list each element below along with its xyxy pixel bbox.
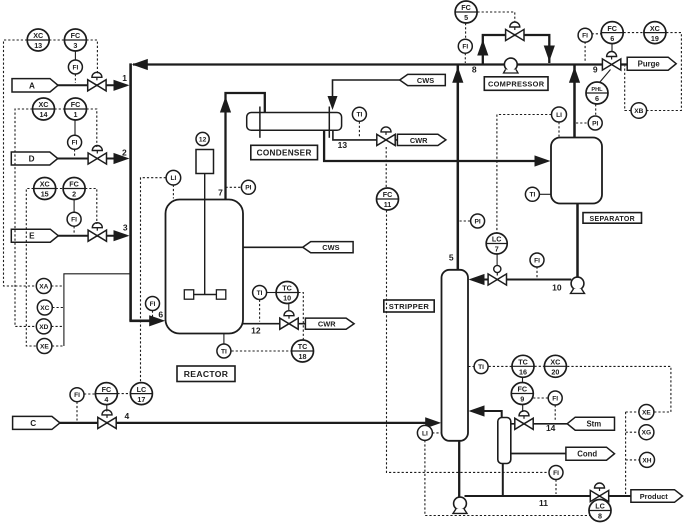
- arrow stripper overhead up: [452, 67, 463, 83]
- wire stripper overhead stream 5: [457, 65, 460, 270]
- svg-text:8: 8: [472, 65, 477, 75]
- valve 9 stripper steam: [515, 411, 533, 430]
- analyzer XC: [37, 300, 52, 315]
- svg-text:FI: FI: [553, 470, 559, 477]
- svg-text:1: 1: [74, 110, 78, 119]
- svg-text:D: D: [29, 155, 35, 164]
- indicator PI stripper: [471, 214, 485, 228]
- indicator PI separator: [588, 116, 602, 130]
- svg-text:17: 17: [137, 395, 145, 404]
- controller FC-4: [95, 383, 117, 405]
- signal FC5 to valve 5: [477, 12, 514, 22]
- reactor agitator motor: [196, 150, 214, 174]
- arrow C feed into stripper: [425, 417, 441, 428]
- svg-text:FC: FC: [607, 24, 617, 33]
- condenser label: [251, 145, 318, 159]
- signal TI stem reactor CW: [259, 300, 261, 322]
- svg-text:2: 2: [72, 190, 76, 199]
- signal reactor TI to TC18: [232, 350, 291, 352]
- wire condenser CWS line: [333, 80, 400, 98]
- controller TC-16: [512, 355, 534, 377]
- svg-text:C: C: [30, 419, 36, 428]
- signal FC4 to LC17: [117, 393, 130, 395]
- node 4: [125, 411, 130, 421]
- signal FI to C line: [76, 402, 78, 421]
- svg-text:12: 12: [251, 326, 261, 336]
- wire steam line stream 14: [511, 423, 568, 425]
- svg-text:8: 8: [598, 512, 602, 521]
- svg-text:LI: LI: [170, 175, 176, 182]
- stripper label: [384, 300, 434, 312]
- link PHL6 to purge valve: [600, 70, 611, 83]
- controller XC-20: [544, 355, 566, 377]
- svg-text:TC: TC: [518, 358, 528, 367]
- signal steam FI to FC9: [533, 397, 548, 399]
- svg-text:PI: PI: [245, 185, 251, 192]
- svg-text:REACTOR: REACTOR: [184, 369, 229, 379]
- separator liquid pump: [571, 277, 585, 293]
- controller FC-5: [455, 1, 477, 23]
- controller FC-9: [511, 383, 533, 405]
- wire C feed line stream 4: [59, 422, 427, 424]
- signal reactor LI to LC17: [141, 178, 166, 383]
- wire reboiler vapor return: [483, 411, 502, 418]
- signal PI to PHL6: [595, 104, 597, 116]
- node 13: [338, 140, 348, 150]
- svg-text:9: 9: [520, 395, 524, 404]
- link TC16 to FC9: [522, 378, 524, 383]
- svg-text:2: 2: [122, 147, 127, 157]
- wire stream 7 reactor to condenser: [226, 93, 265, 200]
- signal TI to TC16: [489, 365, 512, 367]
- svg-text:FI: FI: [552, 395, 558, 402]
- svg-text:18: 18: [299, 352, 307, 361]
- svg-text:LI: LI: [556, 112, 562, 119]
- svg-text:XG: XG: [642, 430, 652, 437]
- feed tag C stream 4: [13, 416, 60, 429]
- svg-text:XE: XE: [40, 343, 49, 350]
- node 8: [472, 65, 477, 75]
- valve 7 separator liquid: [488, 265, 506, 285]
- analyzer XE product: [639, 405, 654, 420]
- separator vessel: [551, 138, 602, 204]
- wire feed header vertical: [129, 63, 132, 320]
- signal XA stub: [51, 285, 64, 287]
- node 7: [218, 188, 223, 198]
- wire reactor CWR line stream 12: [243, 323, 306, 325]
- analyzer XE: [37, 339, 52, 354]
- link FC3 to FI: [74, 51, 76, 60]
- condensate tag: [566, 447, 615, 460]
- valve 5 compressor recycle: [506, 22, 524, 41]
- svg-text:TC: TC: [282, 284, 292, 293]
- svg-text:A: A: [29, 81, 35, 90]
- signal FI to D line: [74, 149, 76, 156]
- svg-text:Cond: Cond: [577, 450, 597, 459]
- signal FI stem stream 10: [536, 267, 538, 278]
- svg-text:6: 6: [158, 309, 163, 319]
- wire compressor bypass loop: [483, 35, 550, 65]
- wire stream 6 into reactor: [129, 319, 152, 322]
- svg-text:7: 7: [218, 188, 223, 198]
- svg-text:20: 20: [551, 368, 559, 377]
- link TC10 to valve 10: [288, 304, 290, 310]
- node 2: [122, 147, 127, 157]
- svg-text:14: 14: [546, 423, 556, 433]
- compressor: [504, 58, 519, 73]
- svg-text:FC: FC: [461, 3, 471, 12]
- node 3: [123, 223, 128, 233]
- reactor agitator shaft and paddle: [184, 174, 226, 300]
- svg-text:3: 3: [73, 41, 77, 50]
- svg-text:CWS: CWS: [322, 243, 339, 252]
- svg-text:FI: FI: [534, 257, 540, 264]
- arrow stream 10 into stripper: [469, 274, 485, 285]
- indicator LI stripper: [417, 425, 432, 440]
- reactor vessel: [166, 200, 244, 334]
- signal FC5 to FI: [465, 23, 467, 39]
- signal XH sample stub: [626, 459, 640, 461]
- svg-text:11: 11: [539, 498, 548, 508]
- svg-text:XC: XC: [550, 358, 560, 367]
- indicator TI reactor CW: [253, 286, 267, 300]
- arrow recycle into feed header: [132, 59, 148, 70]
- svg-text:FC: FC: [71, 31, 81, 40]
- wire reboiler feed riser: [502, 464, 504, 497]
- signal XC19 to XB loop: [647, 33, 682, 111]
- svg-text:LC: LC: [137, 385, 147, 394]
- signal XE sample stub: [626, 411, 640, 413]
- svg-text:SEPARATOR: SEPARATOR: [590, 216, 635, 223]
- svg-text:XC: XC: [40, 180, 50, 189]
- signal product FI stem: [555, 480, 557, 494]
- indicator FI product: [549, 466, 563, 480]
- valve 10 reactor CW: [280, 311, 298, 330]
- wire separator overhead line: [573, 65, 576, 138]
- node 1: [122, 73, 127, 83]
- svg-text:XD: XD: [39, 324, 48, 331]
- svg-text:FC: FC: [102, 385, 112, 394]
- signal FC4 to valve 4: [106, 405, 108, 412]
- svg-text:LI: LI: [422, 430, 428, 437]
- signal FI to recycle line: [464, 53, 466, 63]
- indicator FI A feed: [68, 60, 82, 74]
- arrow E feed into header: [114, 230, 130, 241]
- svg-text:5: 5: [449, 253, 454, 263]
- node 12: [251, 326, 261, 336]
- svg-text:10: 10: [283, 294, 291, 303]
- reactor CWS tag: [303, 242, 353, 253]
- indicator FI purge: [578, 28, 592, 42]
- svg-text:10: 10: [552, 282, 562, 292]
- wire recycle line stream 8: [133, 63, 629, 65]
- svg-text:FI: FI: [462, 44, 468, 51]
- wire condensate line: [511, 453, 566, 455]
- node 14: [546, 423, 556, 433]
- signal XC15 to FC2: [56, 188, 63, 190]
- indicator LI reactor: [166, 170, 181, 185]
- link FC2 to FI: [73, 200, 75, 213]
- signal separator LI to LC7: [497, 115, 552, 233]
- signal FI to E line: [73, 226, 75, 233]
- reactor CWR tag: [305, 318, 354, 329]
- controller FC-6: [601, 22, 623, 44]
- signal TI stem stream 13: [358, 122, 360, 139]
- svg-text:LC: LC: [492, 235, 502, 244]
- svg-text:15: 15: [41, 190, 49, 199]
- signal stripper LI stub: [432, 432, 441, 434]
- signal XB sample stub: [625, 66, 631, 111]
- svg-text:PI: PI: [592, 120, 598, 127]
- svg-text:XH: XH: [642, 457, 651, 464]
- wire stream 10 to stripper: [485, 279, 572, 281]
- svg-text:4: 4: [125, 411, 130, 421]
- svg-text:Stm: Stm: [586, 420, 601, 429]
- signal steam FI stem: [554, 405, 556, 422]
- purge tag stream 9: [627, 57, 676, 70]
- svg-text:FI: FI: [74, 392, 80, 399]
- svg-text:TI: TI: [478, 364, 484, 371]
- svg-text:TI: TI: [356, 112, 362, 119]
- reactor label: [177, 366, 235, 382]
- condenser CWR tag: [397, 134, 446, 145]
- signal XD stub: [51, 325, 64, 327]
- controller XC-13: [27, 29, 49, 51]
- svg-text:FC: FC: [518, 385, 528, 394]
- valve 3 E feed: [88, 223, 106, 242]
- svg-text:TC: TC: [298, 342, 308, 351]
- separator label: [583, 213, 642, 224]
- svg-text:XC: XC: [39, 100, 49, 109]
- svg-text:PHL: PHL: [591, 87, 603, 93]
- svg-text:XA: XA: [39, 283, 48, 290]
- node 5: [449, 253, 454, 263]
- svg-text:FI: FI: [72, 64, 78, 71]
- wire analyzer sample line stream 6: [64, 274, 131, 346]
- signal FC11 to product FI: [387, 210, 549, 472]
- svg-text:9: 9: [593, 64, 598, 74]
- signal reactor PI stub: [226, 186, 242, 188]
- compressor label: [484, 77, 548, 91]
- signal FC3 to valve 1: [86, 40, 97, 74]
- arrow reboiler vapor into stripper: [469, 405, 485, 416]
- indicator FI recycle: [458, 39, 472, 53]
- controller TC-10: [276, 282, 298, 304]
- valve 6 purge: [602, 52, 620, 71]
- signal XC stub: [52, 307, 64, 309]
- signal XE stub: [52, 345, 64, 347]
- condenser shell: [247, 113, 342, 131]
- arrow stream 7 up: [220, 97, 231, 113]
- svg-text:FC: FC: [71, 100, 81, 109]
- svg-text:19: 19: [651, 34, 659, 43]
- wire A feed line stream 1: [57, 84, 115, 86]
- svg-text:13: 13: [34, 41, 42, 50]
- svg-text:12: 12: [199, 136, 207, 143]
- signal product sample line: [625, 412, 627, 495]
- node 11: [539, 498, 548, 508]
- signal TC16 to XC20: [535, 365, 545, 367]
- signal valve 11 to FC11: [385, 147, 387, 188]
- node 6: [158, 309, 163, 319]
- signal reactor LI stem: [172, 185, 174, 199]
- svg-text:XC: XC: [40, 305, 49, 312]
- node 9: [593, 64, 598, 74]
- indicator TI separator: [525, 187, 539, 201]
- analyzer XH product: [640, 452, 655, 467]
- controller XC-19: [644, 22, 666, 44]
- valve 2 D feed: [88, 146, 106, 165]
- controller XC-15: [34, 178, 56, 200]
- svg-text:11: 11: [384, 200, 392, 209]
- wire separator bottoms stream 10: [576, 204, 579, 278]
- indicator TI condenser CW: [352, 107, 366, 121]
- signal stripper TI stub: [468, 366, 473, 368]
- svg-text:FC: FC: [69, 180, 79, 189]
- signal FI to FC4: [84, 393, 95, 395]
- controller FC-2: [63, 178, 85, 200]
- wire stripper bottoms: [458, 441, 460, 498]
- svg-text:FC: FC: [383, 190, 393, 199]
- product tag stream 11: [631, 490, 683, 503]
- svg-text:TI: TI: [257, 290, 263, 297]
- indicator FI steam: [548, 391, 562, 405]
- arrow into separator: [535, 155, 551, 166]
- indicator TI reactor: [217, 344, 231, 358]
- signal separator LI stem: [558, 122, 560, 137]
- valve 1 A feed: [88, 72, 106, 91]
- steam tag stream 14: [567, 417, 614, 430]
- arrow A feed into header: [114, 80, 130, 91]
- svg-text:FI: FI: [72, 140, 78, 147]
- indicator PI reactor: [241, 180, 255, 194]
- feed tag E stream 3: [11, 229, 58, 242]
- signal stripper LI to LC8: [425, 440, 591, 515]
- controller TC-18: [292, 340, 314, 362]
- signal FI to A line: [74, 74, 76, 83]
- svg-text:6: 6: [610, 34, 614, 43]
- link FC6 to valve 6: [611, 44, 613, 52]
- indicator LI separator: [552, 107, 567, 122]
- svg-text:FI: FI: [71, 217, 77, 224]
- override PHL-6: [586, 82, 608, 104]
- valve 8 product: [590, 483, 608, 502]
- feed tag D stream 2: [11, 152, 58, 165]
- analyzer XG product: [639, 425, 654, 440]
- svg-text:CWR: CWR: [410, 136, 428, 145]
- signal XG sample stub: [626, 431, 639, 433]
- stripper bottoms pump: [453, 497, 467, 513]
- link LC8 to valve 8: [599, 499, 601, 501]
- wire condenser outlet to separator: [324, 130, 536, 161]
- arrow bypass down: [544, 46, 555, 62]
- controller LC-7: [486, 233, 507, 254]
- svg-text:3: 3: [123, 223, 128, 233]
- link separator TI stub: [539, 193, 551, 195]
- link LC7 to valve 7: [496, 254, 498, 265]
- valve 11 condenser CW: [377, 127, 395, 146]
- signal FC2 to valve 3: [85, 189, 97, 225]
- svg-text:1: 1: [122, 73, 127, 83]
- signal XD to XC14 loop: [15, 109, 36, 326]
- svg-text:16: 16: [519, 368, 527, 377]
- analyzer XA: [36, 279, 51, 294]
- condenser CWS tag: [400, 74, 446, 85]
- svg-text:XB: XB: [634, 108, 643, 115]
- svg-text:6: 6: [595, 94, 599, 103]
- svg-text:COMPRESSOR: COMPRESSOR: [488, 80, 545, 89]
- signal purge FI stem: [584, 42, 586, 62]
- agitator speed 12 bubble: [196, 132, 209, 145]
- arrow separator overhead up: [569, 67, 580, 83]
- svg-text:13: 13: [338, 140, 348, 150]
- condenser right tube sheet: [328, 107, 330, 138]
- wire condenser CWR line stream 13: [333, 130, 398, 140]
- controller LC-17: [130, 383, 152, 405]
- link FC9 to valve 9: [522, 405, 524, 412]
- valve 4 C feed: [98, 410, 116, 429]
- svg-text:STRIPPER: STRIPPER: [389, 302, 430, 311]
- svg-text:PI: PI: [474, 218, 480, 225]
- wire product line stream 11: [465, 495, 631, 497]
- svg-text:XE: XE: [642, 409, 651, 416]
- svg-text:TI: TI: [529, 192, 535, 199]
- controller LC-8: [589, 500, 611, 522]
- controller FC-11: [377, 188, 399, 210]
- indicator FI D feed: [68, 135, 82, 149]
- controller FC-3: [64, 29, 86, 51]
- svg-text:E: E: [29, 232, 35, 241]
- signal XA to XC13 loop: [4, 40, 37, 286]
- signal TC10 to TC18: [298, 293, 303, 340]
- link reactor TI stem: [223, 334, 225, 344]
- signal XE to XC15 loop: [26, 189, 37, 347]
- svg-text:FI: FI: [150, 301, 156, 308]
- analyzer XB: [631, 103, 647, 119]
- signal FC1 to valve 2: [87, 109, 97, 147]
- indicator FI E feed: [67, 212, 81, 226]
- stripper column: [442, 270, 469, 441]
- link TI to TC10: [267, 292, 276, 294]
- signal XC13 to FC3: [49, 39, 64, 41]
- svg-text:Purge: Purge: [638, 60, 661, 69]
- svg-text:CWS: CWS: [417, 76, 434, 85]
- signal XC20 to XE loop: [567, 366, 671, 412]
- arrow CWS into condenser: [328, 96, 338, 110]
- node 10: [552, 282, 562, 292]
- svg-text:14: 14: [40, 110, 48, 119]
- svg-text:XC: XC: [33, 31, 43, 40]
- svg-text:XC: XC: [650, 24, 660, 33]
- indicator FI C feed: [70, 388, 84, 402]
- svg-text:FI: FI: [582, 33, 588, 40]
- arrow D feed into header: [114, 153, 130, 164]
- controller XC-14: [33, 98, 55, 120]
- signal FI stem stream 6: [152, 311, 154, 320]
- wire reactor CWS line: [243, 246, 303, 248]
- arrow bypass up: [477, 40, 488, 56]
- signal purge FI to FC6: [592, 33, 601, 35]
- arrow stream 6 into reactor: [149, 315, 165, 326]
- indicator TI stripper: [474, 360, 488, 374]
- reboiler: [498, 418, 511, 464]
- link FC1 to FI: [74, 120, 76, 135]
- signal XC14 to FC1: [55, 108, 65, 110]
- signal FC6 to XC19: [624, 32, 644, 34]
- analyzer XD: [36, 319, 51, 334]
- svg-text:5: 5: [464, 13, 468, 22]
- indicator FI stream 6: [146, 297, 160, 311]
